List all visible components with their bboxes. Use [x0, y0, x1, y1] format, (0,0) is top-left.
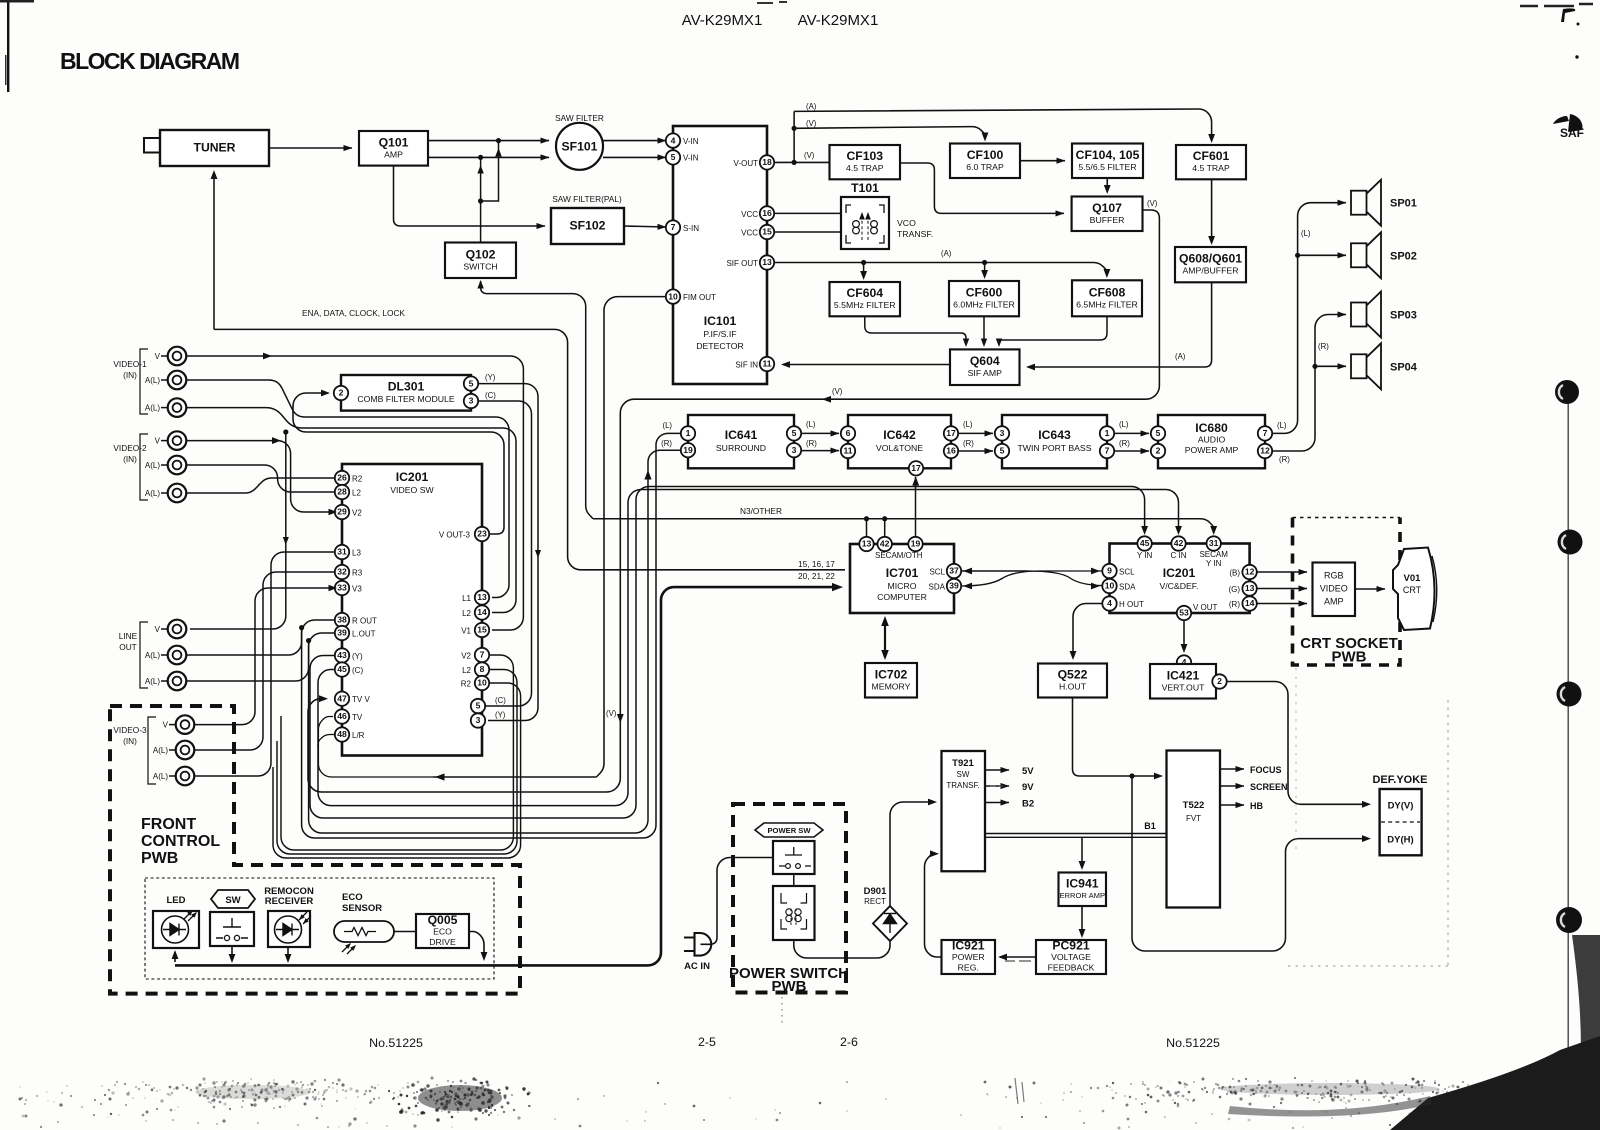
svg-text:CF608: CF608 [1089, 285, 1126, 299]
svg-text:IC680: IC680 [1195, 421, 1228, 435]
svg-text:ENA, DATA, CLOCK, LOCK: ENA, DATA, CLOCK, LOCK [302, 308, 405, 318]
svg-text:N3/OTHER: N3/OTHER [740, 506, 782, 516]
svg-text:IC421: IC421 [1167, 668, 1200, 682]
svg-text:SIF OUT: SIF OUT [726, 259, 758, 268]
svg-text:SECAM/OTH: SECAM/OTH [875, 551, 923, 560]
svg-text:V-IN: V-IN [683, 154, 699, 163]
svg-text:L/R: L/R [352, 731, 365, 740]
svg-text:COMB FILTER MODULE: COMB FILTER MODULE [357, 394, 455, 404]
svg-text:SW: SW [225, 895, 240, 906]
svg-text:2: 2 [1217, 676, 1222, 686]
svg-text:12: 12 [1260, 446, 1270, 456]
svg-text:SAW FILTER: SAW FILTER [555, 113, 604, 123]
svg-text:FVT: FVT [1186, 814, 1201, 823]
svg-text:(B): (B) [1229, 569, 1240, 578]
svg-text:7: 7 [671, 222, 676, 232]
svg-text:(L): (L) [1119, 420, 1129, 429]
svg-text:Q005: Q005 [428, 913, 458, 927]
svg-text:8: 8 [480, 664, 485, 674]
svg-text:39: 39 [949, 581, 959, 591]
svg-text:A(L): A(L) [145, 677, 160, 686]
svg-text:46: 46 [337, 711, 347, 721]
svg-text:16: 16 [946, 446, 956, 456]
svg-text:DEF.YOKE: DEF.YOKE [1372, 774, 1427, 786]
svg-text:BUFFER: BUFFER [1090, 215, 1125, 225]
svg-text:DL301: DL301 [388, 380, 425, 394]
svg-text:V-OUT: V-OUT [734, 159, 759, 168]
svg-text:V2: V2 [461, 651, 471, 660]
svg-text:AV-K29MX1: AV-K29MX1 [798, 12, 879, 29]
svg-text:(L): (L) [1277, 421, 1287, 430]
svg-text:L1: L1 [462, 594, 471, 603]
svg-text:3: 3 [1000, 428, 1005, 438]
svg-text:(R): (R) [806, 439, 817, 448]
svg-text:H.OUT: H.OUT [1059, 682, 1087, 692]
svg-text:33: 33 [337, 583, 347, 593]
svg-text:A(L): A(L) [145, 489, 160, 498]
svg-text:13: 13 [1245, 583, 1255, 593]
svg-text:LED: LED [167, 895, 186, 906]
svg-text:(IN): (IN) [123, 454, 137, 464]
svg-text:15: 15 [762, 227, 772, 237]
svg-text:T921: T921 [952, 758, 974, 769]
svg-text:Y IN: Y IN [1137, 551, 1153, 560]
svg-text:RECEIVER: RECEIVER [265, 896, 314, 907]
svg-text:(A): (A) [1175, 352, 1186, 361]
svg-text:V OUT: V OUT [1193, 603, 1218, 612]
svg-text:(R): (R) [661, 439, 672, 448]
svg-text:17: 17 [946, 428, 956, 438]
svg-text:SDA: SDA [929, 583, 946, 592]
svg-text:7: 7 [1105, 446, 1110, 456]
svg-text:VERT.OUT: VERT.OUT [1162, 682, 1205, 692]
svg-text:18: 18 [762, 157, 772, 167]
svg-text:31: 31 [337, 547, 347, 557]
svg-text:DY(V): DY(V) [1388, 801, 1414, 812]
svg-text:(C): (C) [495, 696, 506, 705]
svg-text:CF104, 105: CF104, 105 [1076, 148, 1140, 162]
svg-text:11: 11 [843, 446, 852, 456]
svg-text:V01: V01 [1404, 573, 1422, 584]
svg-text:L2: L2 [462, 666, 471, 675]
svg-text:AV-K29MX1: AV-K29MX1 [682, 12, 763, 29]
svg-text:R OUT: R OUT [352, 616, 377, 625]
svg-text:L2: L2 [462, 609, 471, 618]
svg-text:(C): (C) [485, 391, 496, 400]
svg-text:T522: T522 [1183, 800, 1205, 811]
svg-text:4: 4 [1107, 598, 1112, 608]
svg-text:DETECTOR: DETECTOR [696, 341, 744, 351]
svg-text:19: 19 [683, 445, 693, 455]
svg-text:SIF AMP: SIF AMP [968, 368, 1002, 378]
svg-text:13: 13 [477, 592, 487, 602]
svg-text:V OUT-3: V OUT-3 [439, 531, 471, 540]
svg-text:SDA: SDA [1119, 583, 1136, 592]
svg-text:5.5/6.5 FILTER: 5.5/6.5 FILTER [1078, 162, 1136, 172]
svg-text:IC702: IC702 [875, 667, 908, 681]
svg-text:SCREEN: SCREEN [1250, 782, 1288, 792]
svg-text:AC IN: AC IN [684, 961, 710, 972]
svg-text:3: 3 [476, 715, 481, 725]
svg-text:V: V [155, 625, 161, 634]
svg-text:SF101: SF101 [562, 140, 598, 154]
svg-text:SP04: SP04 [1390, 361, 1418, 373]
svg-text:R3: R3 [352, 568, 363, 577]
svg-text:SECAM: SECAM [1199, 550, 1228, 559]
svg-text:SCL: SCL [1119, 568, 1135, 577]
svg-text:(C): (C) [352, 666, 363, 675]
svg-text:L2: L2 [352, 488, 361, 497]
svg-text:A(L): A(L) [153, 772, 168, 781]
svg-text:Q604: Q604 [970, 354, 1000, 368]
svg-text:1: 1 [1105, 428, 1110, 438]
svg-text:CF601: CF601 [1193, 149, 1230, 163]
svg-text:MICRO: MICRO [888, 581, 917, 591]
svg-text:IC641: IC641 [725, 428, 758, 442]
svg-text:SCL: SCL [929, 568, 945, 577]
svg-text:VCO: VCO [897, 218, 916, 228]
svg-text:48: 48 [337, 729, 347, 739]
svg-text:SP02: SP02 [1390, 250, 1417, 262]
svg-text:10: 10 [1105, 581, 1115, 591]
svg-text:V: V [155, 352, 161, 361]
svg-text:V2: V2 [352, 508, 362, 517]
svg-text:TUNER: TUNER [194, 141, 236, 155]
svg-text:(V): (V) [1147, 199, 1158, 208]
svg-text:15, 16, 17: 15, 16, 17 [798, 559, 835, 569]
svg-text:A(L): A(L) [145, 461, 160, 470]
svg-text:CF600: CF600 [966, 286, 1003, 300]
svg-text:S-IN: S-IN [683, 224, 699, 233]
svg-text:(4): (4) [1562, 388, 1573, 398]
svg-text:4.5 TRAP: 4.5 TRAP [1192, 163, 1230, 173]
svg-text:CF103: CF103 [846, 149, 883, 163]
svg-text:42: 42 [880, 539, 890, 549]
svg-text:(R): (R) [1119, 439, 1130, 448]
svg-text:(A): (A) [806, 102, 817, 111]
svg-text:SAW FILTER(PAL): SAW FILTER(PAL) [552, 194, 622, 204]
svg-text:V1: V1 [461, 626, 471, 635]
svg-text:AMP/BUFFER: AMP/BUFFER [1183, 266, 1239, 276]
svg-text:FIM OUT: FIM OUT [683, 293, 716, 302]
svg-text:2: 2 [1156, 446, 1161, 456]
svg-text:32: 32 [337, 567, 347, 577]
svg-text:16: 16 [762, 208, 772, 218]
svg-text:VIDEO-1: VIDEO-1 [113, 359, 147, 369]
svg-text:Q608/Q601: Q608/Q601 [1179, 252, 1242, 266]
svg-text:CRT: CRT [1403, 585, 1422, 595]
svg-text:ECO: ECO [433, 927, 452, 937]
svg-text:SP03: SP03 [1390, 310, 1417, 322]
svg-text:P.IF/S.IF: P.IF/S.IF [703, 329, 736, 339]
svg-text:42: 42 [1174, 538, 1184, 548]
svg-text:POWER SW: POWER SW [767, 826, 811, 835]
svg-text:FOCUS: FOCUS [1250, 765, 1282, 775]
svg-text:AUDIO: AUDIO [1198, 435, 1226, 445]
svg-text:17: 17 [911, 463, 921, 473]
svg-text:(R): (R) [1279, 455, 1290, 464]
svg-text:5: 5 [469, 378, 474, 388]
svg-text:(R): (R) [1318, 342, 1329, 351]
svg-text:CF604: CF604 [846, 286, 883, 300]
svg-text:(G): (G) [1228, 585, 1240, 594]
svg-text:SF102: SF102 [570, 219, 606, 233]
svg-text:A(L): A(L) [145, 404, 160, 413]
svg-text:1: 1 [686, 428, 691, 438]
svg-text:POWER: POWER [952, 952, 985, 962]
svg-text:5: 5 [1000, 446, 1005, 456]
svg-text:TRANSF.: TRANSF. [946, 781, 979, 790]
svg-text:OUT: OUT [119, 642, 137, 652]
svg-text:9V: 9V [1022, 782, 1034, 793]
svg-text:11: 11 [762, 359, 771, 369]
svg-text:L.OUT: L.OUT [352, 629, 376, 638]
svg-text:37: 37 [949, 566, 959, 576]
svg-text:5: 5 [671, 152, 676, 162]
svg-text:IC643: IC643 [1038, 428, 1071, 442]
svg-text:AMP: AMP [384, 149, 403, 159]
svg-text:5: 5 [476, 701, 481, 711]
svg-text:2-5: 2-5 [698, 1035, 716, 1049]
svg-text:CF100: CF100 [967, 148, 1004, 162]
svg-text:(IN): (IN) [123, 736, 137, 746]
svg-text:(V): (V) [806, 119, 817, 128]
svg-text:SURROUND: SURROUND [716, 443, 766, 453]
svg-text:3: 3 [469, 396, 474, 406]
svg-text:V/C&DEF.: V/C&DEF. [1159, 581, 1198, 591]
svg-text:PWB: PWB [1332, 649, 1367, 666]
svg-text:(R): (R) [1229, 600, 1240, 609]
svg-text:H OUT: H OUT [1119, 600, 1144, 609]
svg-text:14: 14 [1245, 598, 1255, 608]
svg-text:MEMORY: MEMORY [872, 681, 911, 691]
svg-text:VIDEO: VIDEO [1320, 584, 1348, 594]
svg-text:B1: B1 [1144, 821, 1156, 831]
svg-text:10: 10 [668, 291, 678, 301]
svg-text:SP01: SP01 [1390, 198, 1417, 210]
svg-text:2-6: 2-6 [840, 1035, 858, 1049]
svg-text:5V: 5V [1022, 766, 1034, 777]
svg-text:IC101: IC101 [704, 314, 737, 328]
svg-text:B2: B2 [1022, 799, 1034, 810]
svg-text:IC921: IC921 [952, 939, 985, 953]
svg-text:DRIVE: DRIVE [429, 937, 456, 947]
svg-text:IC941: IC941 [1066, 877, 1099, 891]
svg-text:Q522: Q522 [1058, 668, 1088, 682]
svg-text:SENSOR: SENSOR [342, 903, 382, 914]
svg-text:Y IN: Y IN [1206, 559, 1222, 568]
svg-text:PC921: PC921 [1052, 939, 1089, 953]
svg-text:6.5MHz FILTER: 6.5MHz FILTER [1076, 299, 1138, 309]
svg-text:RGB: RGB [1324, 571, 1344, 581]
svg-text:7: 7 [1263, 428, 1268, 438]
svg-text:V-IN: V-IN [683, 137, 699, 146]
svg-text:No.51225: No.51225 [369, 1036, 423, 1050]
svg-text:FEEDBACK: FEEDBACK [1048, 963, 1095, 973]
svg-text:Q101: Q101 [379, 135, 409, 149]
svg-text:Q102: Q102 [466, 247, 496, 261]
svg-text:IC701: IC701 [886, 566, 919, 580]
svg-text:SIF IN: SIF IN [735, 361, 758, 370]
svg-text:No.51225: No.51225 [1166, 1036, 1220, 1050]
svg-text:ERROR AMP: ERROR AMP [1059, 891, 1105, 900]
svg-text:47: 47 [337, 693, 347, 703]
svg-text:45: 45 [337, 664, 347, 674]
svg-text:A(L): A(L) [145, 376, 160, 385]
svg-text:IC201: IC201 [396, 470, 429, 484]
svg-text:4: 4 [671, 135, 676, 145]
svg-text:(Y): (Y) [352, 652, 363, 661]
svg-text:T101: T101 [851, 181, 879, 195]
svg-text:(Y): (Y) [495, 711, 506, 720]
svg-text:4.5 TRAP: 4.5 TRAP [846, 163, 884, 173]
svg-text:6.0MHz FILTER: 6.0MHz FILTER [953, 300, 1015, 310]
svg-text:(R): (R) [963, 439, 974, 448]
svg-text:COMPUTER: COMPUTER [877, 592, 927, 602]
svg-text:V: V [163, 721, 169, 730]
svg-text:(L): (L) [806, 420, 816, 429]
svg-text:IC201: IC201 [1163, 566, 1196, 580]
svg-text:VCC: VCC [741, 229, 758, 238]
svg-text:TRANSF.: TRANSF. [897, 229, 933, 239]
svg-text:POWER AMP: POWER AMP [1185, 445, 1239, 455]
svg-text:AMP: AMP [1324, 597, 1344, 607]
svg-text:VCC: VCC [741, 210, 758, 219]
svg-text:Q107: Q107 [1092, 201, 1122, 215]
svg-text:(IN): (IN) [123, 370, 137, 380]
svg-text:LINE: LINE [119, 631, 138, 641]
svg-text:(L): (L) [1301, 229, 1311, 238]
svg-text:5.5MHz FILTER: 5.5MHz FILTER [834, 300, 896, 310]
svg-text:3: 3 [792, 445, 797, 455]
svg-text:C IN: C IN [1171, 551, 1187, 560]
svg-text:RECT: RECT [864, 897, 886, 906]
svg-text:31: 31 [1209, 538, 1219, 548]
svg-text:D901: D901 [864, 886, 887, 897]
svg-text:VIDEO SW: VIDEO SW [390, 485, 434, 495]
svg-text:(V): (V) [804, 151, 815, 160]
svg-text:6: 6 [846, 428, 851, 438]
svg-text:14: 14 [477, 607, 487, 617]
svg-text:5: 5 [792, 428, 797, 438]
svg-text:12: 12 [1245, 567, 1255, 577]
svg-text:13: 13 [862, 539, 872, 549]
svg-text:26: 26 [337, 473, 347, 483]
svg-text:SWITCH: SWITCH [463, 261, 497, 271]
svg-text:43: 43 [337, 650, 347, 660]
svg-text:53: 53 [1179, 608, 1189, 618]
svg-text:TWIN PORT BASS: TWIN PORT BASS [1017, 443, 1091, 453]
svg-text:(Y): (Y) [485, 373, 496, 382]
svg-text:5: 5 [1156, 428, 1161, 438]
svg-text:A(L): A(L) [145, 651, 160, 660]
svg-text:20, 21, 22: 20, 21, 22 [798, 571, 835, 581]
svg-text:29: 29 [337, 507, 347, 517]
svg-text:HB: HB [1250, 801, 1263, 811]
svg-text:PWB: PWB [772, 978, 807, 995]
svg-text:R2: R2 [461, 679, 472, 688]
svg-text:A(L): A(L) [153, 746, 168, 755]
svg-text:SAF: SAF [1560, 126, 1584, 140]
svg-text:CONTROL: CONTROL [141, 833, 220, 850]
svg-text:23: 23 [477, 529, 487, 539]
svg-text:BLOCK DIAGRAM: BLOCK DIAGRAM [60, 48, 239, 74]
svg-text:(A): (A) [941, 249, 952, 258]
svg-text:45: 45 [1140, 538, 1150, 548]
svg-text:39: 39 [337, 628, 347, 638]
svg-text:VOL&TONE: VOL&TONE [876, 443, 923, 453]
svg-text:6.0 TRAP: 6.0 TRAP [966, 162, 1004, 172]
svg-text:38: 38 [337, 615, 347, 625]
svg-text:19: 19 [911, 539, 921, 549]
svg-text:9: 9 [1107, 566, 1112, 576]
svg-text:13: 13 [762, 257, 772, 267]
svg-text:TV V: TV V [352, 695, 370, 704]
svg-text:ECO: ECO [342, 892, 363, 903]
svg-text:L3: L3 [352, 548, 361, 557]
svg-text:(V): (V) [832, 387, 843, 396]
svg-text:2: 2 [339, 388, 344, 398]
svg-text:SW: SW [957, 770, 970, 779]
svg-text:VOLTAGE: VOLTAGE [1051, 952, 1091, 962]
svg-text:FRONT: FRONT [141, 816, 196, 833]
svg-text:(V): (V) [606, 709, 617, 718]
svg-text:TV: TV [352, 713, 363, 722]
svg-text:V: V [155, 437, 161, 446]
svg-text:VIDEO-3: VIDEO-3 [113, 725, 147, 735]
svg-text:PWB: PWB [141, 850, 178, 867]
svg-text:REG.: REG. [958, 963, 979, 973]
svg-text:10: 10 [477, 678, 487, 688]
svg-text:V3: V3 [352, 584, 362, 593]
svg-text:28: 28 [337, 487, 347, 497]
svg-text:(L): (L) [963, 420, 973, 429]
svg-text:VIDEO-2: VIDEO-2 [113, 443, 147, 453]
svg-text:R2: R2 [352, 474, 363, 483]
svg-text:(L): (L) [662, 421, 672, 430]
svg-text:DY(H): DY(H) [1387, 835, 1413, 846]
svg-text:7: 7 [480, 650, 485, 660]
svg-text:15: 15 [477, 625, 487, 635]
svg-text:IC642: IC642 [883, 428, 916, 442]
